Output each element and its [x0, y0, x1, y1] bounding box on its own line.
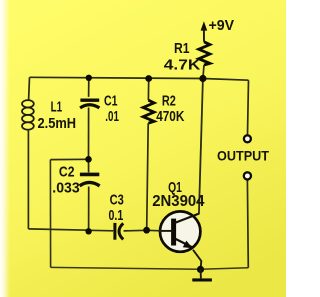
wire C2 top lead — [88, 159, 90, 172]
wire emitter lead — [193, 250, 201, 269]
node C1/C2 tap junction — [85, 156, 92, 163]
wire R1 bottom lead — [203, 65, 204, 78]
ground — [192, 269, 212, 281]
wire rail to output top terminal — [248, 80, 249, 134]
resistor R2 — [143, 100, 154, 123]
wire tap node horizontal — [50, 158, 88, 160]
wire ground rail — [51, 267, 249, 269]
svg-text:2N3904: 2N3904 — [152, 193, 205, 210]
wire L1 bottom lead — [27, 130, 29, 229]
svg-text:4.7K: 4.7K — [164, 57, 201, 74]
svg-text:L1: L1 — [51, 99, 63, 116]
svg-text:.01: .01 — [105, 109, 119, 125]
capacitor C3 — [115, 223, 123, 240]
wire C1 bottom lead — [88, 108, 90, 160]
svg-text:.033: .033 — [52, 180, 79, 197]
svg-text:OUTPUT: OUTPUT — [217, 147, 269, 163]
wire C1 top lead — [88, 78, 90, 97]
wire L1 top lead — [28, 77, 31, 100]
svg-text:+9V: +9V — [209, 17, 235, 34]
resistor R1 — [199, 42, 210, 65]
transistor Q1 — [160, 211, 200, 251]
wire collector drop — [199, 79, 203, 215]
svg-text:R1: R1 — [174, 40, 190, 57]
svg-text:C2: C2 — [59, 164, 75, 181]
terminal output top — [244, 135, 251, 142]
svg-text:2.5mH: 2.5mH — [38, 115, 77, 132]
node emitter/ground junction — [197, 266, 204, 273]
svg-text:C1: C1 — [104, 94, 118, 110]
svg-text:0.1: 0.1 — [109, 207, 124, 224]
capacitor C1 — [80, 100, 99, 108]
wire tap node drop — [49, 160, 51, 268]
svg-text:470K: 470K — [156, 108, 184, 125]
terminal output bottom — [244, 172, 251, 179]
wire base lead — [147, 229, 161, 232]
node rail/C1 junction — [86, 75, 92, 81]
wire output bottom drop — [246, 180, 249, 268]
wire top rail — [30, 77, 249, 80]
wire bottom-left horizontal to C2 node — [28, 229, 88, 230]
node rail/R2 junction — [145, 75, 152, 82]
wire R2 top lead — [147, 79, 149, 101]
capacitor C2 — [80, 174, 100, 186]
node rail/R1 junction — [199, 75, 206, 82]
inductor L1 — [22, 100, 34, 130]
wire C2 node to C3 left plate — [89, 229, 114, 232]
power +9V arrow — [201, 21, 208, 42]
node base junction — [143, 227, 150, 234]
wire C2 bottom lead — [88, 187, 90, 232]
node C2/L1/C3 junction — [85, 228, 91, 234]
wire C3 right lead to base node — [124, 229, 147, 232]
wire R2 bottom lead — [147, 123, 149, 230]
